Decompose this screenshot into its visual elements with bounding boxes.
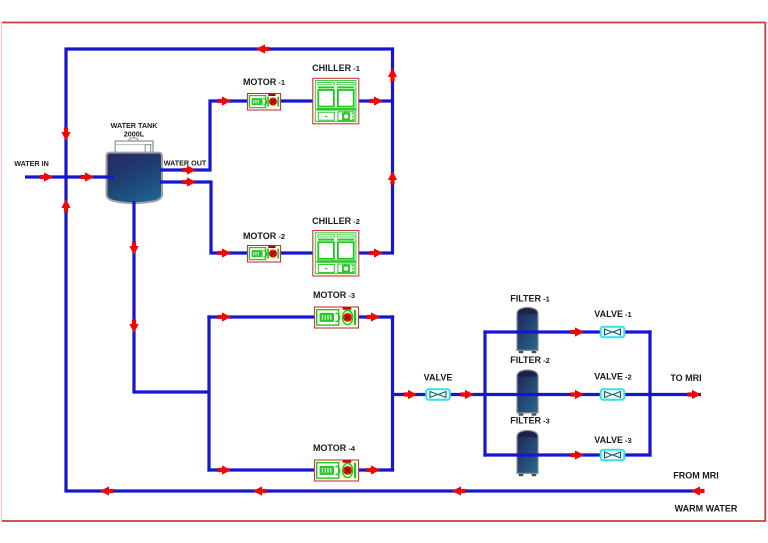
pump MOTOR-4 icon	[315, 460, 359, 481]
svg-text:WATER OUT: WATER OUT	[164, 159, 207, 168]
flow arrow left riser up	[61, 199, 70, 213]
flow arrow filter-1 outlet	[571, 327, 585, 336]
valve VALVE-2 icon	[601, 389, 625, 399]
flow arrow water out upper	[183, 165, 197, 174]
flow arrow chiller-1 outlet	[370, 96, 384, 105]
wire filter-2 branch	[483, 393, 651, 396]
flow arrow bottom return 2	[253, 486, 267, 495]
pump MOTOR-2 icon	[248, 246, 281, 263]
flow arrow bottom return 1	[452, 486, 466, 495]
svg-text:2000L: 2000L	[124, 130, 145, 139]
flow arrow into valve	[404, 390, 418, 399]
wire motor-4 branch	[207, 468, 394, 471]
flow arrow right riser up 2	[388, 171, 397, 185]
chiller CHILLER-2 icon	[313, 231, 359, 277]
wire motor-3 branch	[207, 315, 394, 318]
svg-text:VALVE -3: VALVE -3	[594, 435, 631, 445]
svg-text:VALVE: VALVE	[424, 373, 453, 383]
svg-text:FILTER -2: FILTER -2	[510, 355, 550, 365]
svg-text:FROM MRI: FROM MRI	[673, 471, 719, 481]
valve VALVE main icon	[426, 389, 450, 399]
pump MOTOR-1 icon	[248, 94, 281, 111]
flow arrow water out lower	[183, 177, 197, 186]
flow arrow valve outlet	[461, 390, 475, 399]
filter F2 vessel	[517, 370, 538, 416]
flow arrow filter-2 outlet	[571, 390, 585, 399]
flow arrow into motor-2	[218, 248, 232, 257]
flow arrow into motor-1	[218, 96, 232, 105]
flow arrow into motor-3	[218, 312, 232, 321]
svg-text:FILTER -3: FILTER -3	[510, 416, 550, 426]
pump MOTOR-3 icon	[315, 307, 359, 328]
flow arrow water in 2	[81, 172, 95, 181]
svg-text:CHILLER -1: CHILLER -1	[312, 63, 360, 73]
svg-text:MOTOR -2: MOTOR -2	[243, 231, 285, 241]
flow arrow top pipe left	[256, 44, 270, 53]
valve VALVE-1 icon	[601, 327, 625, 337]
filter F1 vessel	[517, 307, 538, 353]
wire from MRI warm water return	[64, 489, 702, 492]
flow arrow to MRI	[688, 390, 702, 399]
flow arrow from MRI end	[691, 486, 705, 495]
wire valve feed line	[393, 393, 487, 396]
svg-text:MOTOR -3: MOTOR -3	[313, 290, 355, 300]
svg-text:WARM WATER: WARM WATER	[675, 504, 738, 514]
wire tank bottom drain to manifold	[134, 201, 211, 392]
flow arrow tank drain down 2	[129, 320, 138, 334]
flow arrow left riser down	[61, 128, 70, 142]
wire filter bank right header	[648, 330, 651, 456]
svg-text:MOTOR -1: MOTOR -1	[243, 77, 285, 87]
flow arrow tank drain down 1	[129, 242, 138, 256]
flow arrow chiller-2 outlet	[370, 248, 384, 257]
flow arrow into motor-4	[218, 465, 232, 474]
svg-text:VALVE -1: VALVE -1	[594, 309, 631, 319]
wire tank upper outlet to motor-1 branch	[160, 101, 394, 170]
wire pump manifold left header	[207, 315, 210, 471]
flow arrow right riser up 1	[388, 68, 397, 82]
svg-text:TO MRI: TO MRI	[670, 373, 701, 383]
wire to MRI outlet	[648, 393, 701, 396]
filter F3 vessel	[517, 430, 538, 476]
flow arrow water in 1	[40, 172, 54, 181]
wire filter bank left header	[483, 330, 486, 456]
svg-text:CHILLER -2: CHILLER -2	[312, 216, 360, 226]
water tank WATER TANK 2000L	[107, 138, 163, 204]
wire water inlet	[25, 175, 114, 178]
valve VALVE-3 icon	[601, 450, 625, 460]
flow arrow filter-3 outlet	[571, 450, 585, 459]
flow arrow motor-4 outlet	[367, 465, 381, 474]
wire filter-1 branch	[483, 330, 651, 333]
svg-text:FILTER -1: FILTER -1	[510, 294, 550, 304]
wire pump manifold right header	[391, 315, 394, 471]
flow arrow bottom return 3	[100, 486, 114, 495]
wire top return pipe	[66, 49, 393, 491]
svg-text:MOTOR -4: MOTOR -4	[313, 443, 356, 453]
flow arrow motor-3 outlet	[367, 312, 381, 321]
chiller CHILLER-1 icon	[313, 78, 359, 124]
svg-text:WATER IN: WATER IN	[14, 159, 49, 168]
wire tank lower outlet to motor-2 branch	[160, 182, 394, 253]
wire filter-3 branch	[483, 453, 651, 456]
svg-text:VALVE -2: VALVE -2	[594, 372, 631, 382]
